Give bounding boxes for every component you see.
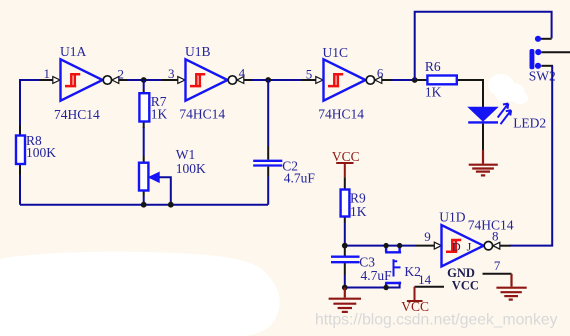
wire vertical up to top rail xyxy=(415,12,552,80)
wire LED cathode down xyxy=(482,124,484,150)
resistor R6 xyxy=(418,76,483,85)
svg-text:VCC: VCC xyxy=(452,278,479,292)
svg-text:U1B: U1B xyxy=(185,44,211,59)
junction node pin6 column xyxy=(412,77,418,83)
svg-text:100K: 100K xyxy=(26,145,56,160)
potentiometer W1 xyxy=(139,156,159,196)
svg-text:14: 14 xyxy=(418,272,432,287)
junction node W1 bottom xyxy=(141,202,147,208)
svg-text:4.7uF: 4.7uF xyxy=(361,268,393,283)
junction node K2 bottom xyxy=(383,285,388,290)
ground (LED2) xyxy=(469,150,498,175)
svg-text:74HC14: 74HC14 xyxy=(318,106,364,121)
svg-text:U1D: U1D xyxy=(439,209,465,224)
diode LED2 xyxy=(468,104,511,125)
wire pin4 to pin5 xyxy=(252,79,302,81)
junction node pin2/R7 xyxy=(141,77,147,83)
svg-text:6: 6 xyxy=(377,66,384,81)
svg-text:3: 3 xyxy=(168,66,175,81)
wire bottom horizontal net xyxy=(20,204,268,206)
wire LED column down xyxy=(482,79,484,107)
svg-text:2: 2 xyxy=(118,67,125,82)
switch K2 xyxy=(385,246,401,288)
svg-text:W1: W1 xyxy=(176,147,196,162)
pin 14 wire xyxy=(415,286,445,288)
junction node R9/C3/pin9 xyxy=(342,243,348,249)
ground (C3) xyxy=(329,288,361,312)
svg-text:7: 7 xyxy=(494,258,501,273)
junction node C3 bottom xyxy=(342,285,348,291)
pin 3 black stub and arrow xyxy=(162,77,185,84)
svg-text:8: 8 xyxy=(492,229,499,244)
wire pin9 net xyxy=(345,245,415,247)
wire W1 wiper to bottom xyxy=(159,177,171,204)
resistor R7 xyxy=(139,90,149,128)
wire pin6 to R6 xyxy=(391,79,418,81)
wire C3 bottom net xyxy=(345,275,400,288)
svg-text:9: 9 xyxy=(424,229,431,244)
power VCC (pin 14) xyxy=(401,287,429,314)
pin 1 black stub and arrow xyxy=(40,77,60,84)
svg-text:4.7uF: 4.7uF xyxy=(284,171,316,186)
svg-text:74HC14: 74HC14 xyxy=(468,218,514,233)
switch SW2 xyxy=(530,36,570,69)
op-amp U1B 74HC14 schmitt inverter xyxy=(186,59,254,100)
svg-text:https://blog.csdn.net/geek_mon: https://blog.csdn.net/geek_monkey xyxy=(315,312,558,329)
svg-text:R6: R6 xyxy=(425,59,441,74)
svg-text:LED2: LED2 xyxy=(513,116,546,131)
junction node pin4/C2 xyxy=(265,77,271,83)
capacitor C2 xyxy=(253,146,282,177)
resistor R9 xyxy=(341,177,350,223)
svg-text:1K: 1K xyxy=(350,204,367,219)
svg-text:74HC14: 74HC14 xyxy=(54,107,100,122)
wire SW2 bottom down to U1D output xyxy=(510,66,553,246)
wire W1 bottom pin stub xyxy=(143,196,145,205)
power VCC (R9 top) xyxy=(332,149,360,178)
svg-text:74HC14: 74HC14 xyxy=(179,107,225,122)
junction node wiper bottom xyxy=(168,202,174,208)
svg-text:4: 4 xyxy=(239,66,246,81)
junction node K2 top left xyxy=(383,243,388,248)
op-amp U1A 74HC14 schmitt inverter xyxy=(61,59,129,100)
op-amp U1D 74HC14 schmitt inverter xyxy=(442,225,511,266)
wire C2 column xyxy=(267,80,269,205)
ground (pin 7) xyxy=(496,274,526,300)
svg-text:1: 1 xyxy=(44,66,51,81)
svg-text:1K: 1K xyxy=(151,107,168,122)
wire R9 to C3 column xyxy=(344,223,346,248)
wire pin2 to pin3 xyxy=(127,79,162,81)
pin 5 black stub and arrow xyxy=(302,77,323,84)
wire R7 column xyxy=(143,80,145,156)
wire left column net xyxy=(19,80,21,205)
svg-text:U1A: U1A xyxy=(60,44,86,59)
svg-text:VCC: VCC xyxy=(401,299,429,314)
white blob bottom-left xyxy=(0,252,280,336)
pin 9 black stub and arrow xyxy=(415,242,442,249)
svg-text:U1C: U1C xyxy=(323,45,349,60)
op-amp U1C 74HC14 schmitt inverter xyxy=(324,59,393,100)
svg-text:100K: 100K xyxy=(176,161,206,176)
white blob near LED2 xyxy=(488,74,528,104)
resistor R8 xyxy=(16,125,25,175)
wire pin1 horizontal xyxy=(19,79,40,81)
capacitor C3 xyxy=(331,248,360,275)
svg-text:1K: 1K xyxy=(425,85,442,100)
pin 7 wire xyxy=(483,273,512,275)
svg-text:VCC: VCC xyxy=(332,149,360,164)
svg-text:D J: D J xyxy=(452,240,472,254)
junction node K2 top right xyxy=(397,243,402,248)
